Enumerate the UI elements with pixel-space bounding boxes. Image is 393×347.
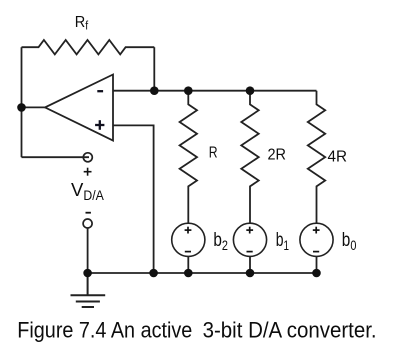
source b1 circle — [233, 223, 266, 256]
node: rail-ground junction — [83, 269, 92, 278]
node: Rf to bus junction — [150, 86, 159, 95]
resistor R — [180, 91, 197, 224]
wire: V terminal top lead — [22, 156, 90, 158]
op-amp pin label: non-inverting plus — [95, 120, 104, 130]
svg-text:b0: b0 — [342, 230, 357, 253]
source b2 circle — [172, 223, 205, 256]
wire: bottom ground rail — [88, 272, 319, 274]
resistor 4R — [308, 91, 325, 224]
wire: b1 bottom lead — [249, 256, 251, 273]
node: b1 rail junction — [246, 269, 255, 278]
wire: non-inverting input to ground rail — [113, 125, 154, 273]
V terminal polarity minus — [86, 212, 91, 214]
wire: b0 bottom lead — [316, 256, 318, 273]
ground — [71, 273, 106, 307]
source b0 circle — [300, 223, 333, 256]
svg-text:b2: b2 — [213, 230, 228, 253]
op-amp U1 — [45, 75, 113, 141]
resistor 2R — [241, 91, 258, 224]
wire: output node to op-amp apex — [22, 106, 46, 108]
source b1 polarity marks — [246, 227, 253, 252]
svg-text:R: R — [209, 145, 218, 162]
svg-text:4R: 4R — [328, 149, 348, 166]
svg-text:b1: b1 — [276, 230, 289, 253]
node: R top junction — [184, 86, 193, 95]
node: b0 rail junction — [312, 269, 321, 278]
terminal: V+ open circle — [83, 153, 92, 162]
svg-text:2R: 2R — [268, 147, 287, 164]
wire: Rf right side down to inverting bus — [153, 47, 155, 90]
V terminal polarity plus — [84, 168, 92, 176]
source b2 polarity marks — [185, 227, 192, 252]
wire: V terminal bottom lead down to rail — [87, 228, 89, 273]
wire: inverting input bus (to R,2R,4R tops) — [113, 90, 317, 92]
node: plus-input rail junction — [149, 269, 158, 278]
resistor Rf — [22, 40, 155, 54]
node: b2 rail junction — [184, 269, 193, 278]
wire: b2 bottom lead — [187, 256, 189, 273]
svg-text:Figure 7.4 An active: Figure 7.4 An active — [17, 318, 192, 343]
svg-text:3-bit D/A converter.: 3-bit D/A converter. — [203, 318, 377, 343]
node: op-amp output junction — [17, 103, 26, 112]
svg-text:Rf: Rf — [75, 14, 89, 33]
op-amp pin label: inverting minus — [97, 90, 103, 92]
terminal: V- open circle — [83, 219, 92, 228]
wire: left vertical from Rf down to V output wire — [21, 47, 23, 157]
svg-text:VD/A: VD/A — [71, 179, 104, 203]
node: 2R top junction — [246, 86, 255, 95]
source b0 polarity marks — [313, 227, 320, 252]
